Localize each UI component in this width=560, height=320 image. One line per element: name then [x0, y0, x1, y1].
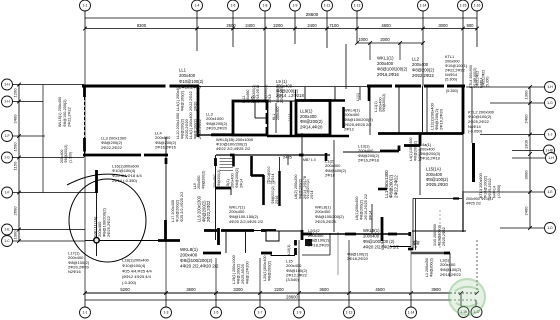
svg-text:L1(1): L1(1) [356, 93, 360, 101]
svg-text:4500: 4500 [375, 287, 385, 292]
svg-text:2Φ22,2Φ22: 2Φ22,2Φ22 [394, 175, 399, 198]
svg-text:Φ10@100(2): Φ10@100(2) [437, 225, 441, 246]
svg-text:N4Φ14: N4Φ14 [445, 73, 457, 77]
svg-text:200x400: 200x400 [420, 148, 435, 152]
svg-text:4Φ25 2/2: 4Φ25 2/2 [466, 202, 481, 206]
svg-text:Φ6@200(2): Φ6@200(2) [414, 140, 418, 161]
svg-text:2Φ18,2Φ20: 2Φ18,2Φ20 [347, 256, 369, 261]
svg-text:200x400: 200x400 [276, 107, 280, 120]
svg-text:7100: 7100 [329, 23, 339, 28]
svg-text:8300: 8300 [137, 23, 147, 28]
svg-text:L11(1): L11(1) [374, 101, 378, 112]
svg-text:1/15 200x900: 1/15 200x900 [433, 224, 437, 246]
svg-text:Φ8@100(2): Φ8@100(2) [194, 118, 198, 139]
svg-text:1-E: 1-E [547, 190, 553, 194]
svg-text:1-6: 1-6 [231, 4, 236, 8]
svg-text:Φ8@200(2): Φ8@200(2) [217, 170, 221, 188]
svg-text:200x400: 200x400 [231, 173, 235, 188]
svg-text:2Φ22,2Φ22: 2Φ22,2Φ22 [412, 73, 434, 78]
svg-text:2Φ22,2Φ22: 2Φ22,2Φ22 [206, 200, 211, 222]
svg-text:Φ8: Φ8 [417, 240, 421, 245]
svg-text:Φ25 4/4,Φ25 4/4: Φ25 4/4,Φ25 4/4 [122, 269, 153, 274]
svg-text:2400: 2400 [307, 23, 317, 28]
svg-text:(-0.300): (-0.300) [122, 280, 137, 285]
svg-text:Φ8@100(2): Φ8@100(2) [237, 263, 241, 284]
svg-text:Φ8@100-200(2): Φ8@100-200(2) [63, 99, 67, 127]
svg-text:2600: 2600 [13, 206, 18, 216]
svg-text:1-7: 1-7 [258, 311, 263, 315]
svg-text:2500: 2500 [226, 23, 236, 28]
svg-text:(5.350): (5.350) [446, 89, 459, 93]
svg-text:6Φ14: 6Φ14 [369, 211, 373, 220]
svg-text:(3.540): (3.540) [286, 277, 299, 282]
svg-text:2Φ22,2Φ22: 2Φ22,2Φ22 [189, 91, 193, 111]
svg-text:2Φ14: 2Φ14 [310, 191, 314, 199]
svg-text:1-4: 1-4 [195, 4, 200, 8]
svg-text:28600: 28600 [286, 295, 298, 300]
svg-text:1-G: 1-G [547, 101, 553, 105]
svg-text:Φ8@100/200(2): Φ8@100/200(2) [180, 258, 213, 263]
svg-text:KTL3 200x900: KTL3 200x900 [479, 173, 483, 198]
svg-text:2Φ16,2Φ16: 2Φ16,2Φ16 [377, 72, 399, 77]
svg-text:L19(1) 200x1000: L19(1) 200x1000 [232, 255, 236, 284]
svg-text:2Φ16,2Φ18: 2Φ16,2Φ18 [420, 156, 440, 160]
svg-text:2Φ25,2Φ25: 2Φ25,2Φ25 [315, 219, 337, 224]
svg-text:2Φ16,2Φ5: 2Φ16,2Φ5 [280, 87, 284, 103]
svg-text:2Φ22,2Φ22: 2Φ22,2Φ22 [198, 119, 202, 139]
svg-text:1-3: 1-3 [164, 311, 169, 315]
svg-text:1-8: 1-8 [263, 4, 268, 8]
svg-text:2Φ18,2Φ20: 2Φ18,2Φ20 [308, 243, 330, 248]
svg-text:2Φ18,2Φ18: 2Φ18,2Φ18 [256, 85, 260, 103]
svg-text:2Φ16,2Φ18: 2Φ16,2Φ18 [358, 158, 380, 163]
svg-text:(5.300): (5.300) [485, 77, 489, 87]
svg-text:L17 200x400: L17 200x400 [171, 200, 175, 222]
svg-text:2400: 2400 [524, 206, 529, 216]
svg-text:2Φ18: 2Φ18 [268, 94, 272, 103]
svg-text:2Φ20,2Φ20: 2Φ20,2Φ20 [206, 126, 228, 131]
svg-text:1-14: 1-14 [408, 311, 415, 315]
svg-text:2Φ25,2Φ20: 2Φ25,2Φ20 [426, 182, 448, 187]
svg-text:Φ8@200(2): Φ8@200(2) [360, 199, 364, 220]
svg-text:2425: 2425 [283, 155, 293, 160]
svg-text:Φ8@200(2): Φ8@200(2) [412, 67, 435, 72]
svg-text:LL4(1) 200x400: LL4(1) 200x400 [189, 112, 193, 139]
svg-text:2000: 2000 [380, 37, 390, 42]
svg-text:Φ8@100(2): Φ8@100(2) [181, 90, 185, 111]
svg-text:1-F: 1-F [4, 134, 9, 138]
svg-text:Φ8@12Φ200: Φ8@12Φ200 [245, 261, 249, 284]
svg-text:LL1: LL1 [179, 68, 187, 73]
svg-text:4Φ22 2/2,4Φ25 2/2: 4Φ22 2/2,4Φ25 2/2 [216, 146, 251, 151]
svg-text:L4a(1): L4a(1) [420, 143, 432, 147]
svg-text:1-H: 1-H [4, 100, 10, 104]
svg-text:L20(1)300x400: L20(1)300x400 [263, 255, 267, 281]
svg-text:2Φ20: 2Φ20 [194, 102, 198, 111]
svg-text:Φ10@100(2): Φ10@100(2) [179, 79, 204, 84]
svg-text:1-H: 1-H [547, 85, 553, 89]
svg-text:5200: 5200 [120, 287, 130, 292]
svg-text:N4Φ14: N4Φ14 [492, 186, 496, 198]
svg-text:2Φ16,2Φ25 2/2: 2Φ16,2Φ25 2/2 [364, 194, 368, 220]
svg-text:1-1: 1-1 [83, 311, 88, 315]
svg-text:Φ10@100(1): Φ10@100(1) [445, 64, 468, 68]
svg-text:2Φ16: 2Φ16 [275, 196, 279, 204]
svg-text:2Φ25,2Φ22: 2Φ25,2Φ22 [442, 227, 446, 246]
svg-text:1-F: 1-F [4, 191, 9, 195]
svg-text:2400: 2400 [245, 23, 255, 28]
svg-text:1-1: 1-1 [83, 4, 88, 8]
svg-text:1-16: 1-16 [474, 4, 481, 8]
svg-text:Φ10@100(4): Φ10@100(4) [122, 263, 146, 268]
svg-text:2Φ14 (-0.350): 2Φ14 (-0.350) [112, 178, 138, 183]
svg-text:200x400: 200x400 [180, 252, 198, 257]
svg-text:LL10 200x1000: LL10 200x1000 [176, 113, 180, 139]
svg-text:2Φ22,2Φ22: 2Φ22,2Φ22 [445, 69, 465, 73]
svg-text:(6Φ12 4Φ25 4/4: (6Φ12 4Φ25 4/4 [122, 274, 152, 279]
svg-text:200x900: 200x900 [445, 60, 460, 64]
svg-text:3900: 3900 [431, 287, 441, 292]
svg-text:L8(2) 200x200: L8(2) 200x200 [294, 175, 298, 200]
svg-text:3300: 3300 [233, 287, 243, 292]
svg-text:L10(1): L10(1) [287, 245, 291, 255]
svg-text:1-C: 1-C [4, 239, 10, 243]
svg-text:L4(1)100x400: L4(1)100x400 [409, 138, 413, 161]
svg-text:L5(1): L5(1) [226, 178, 230, 188]
svg-text:3600: 3600 [319, 287, 329, 292]
svg-text:(-0.500): (-0.500) [497, 184, 501, 198]
svg-text:2Φ16,2Φ20: 2Φ16,2Φ20 [439, 108, 444, 130]
svg-text:1150: 1150 [13, 161, 18, 170]
svg-text:2Φ25,2Φ22: 2Φ25,2Φ22 [488, 178, 492, 198]
svg-text:(-0.050): (-0.050) [468, 129, 483, 134]
svg-text:N2Φ10: N2Φ10 [418, 149, 422, 161]
svg-text:2Φ16,2Φ16: 2Φ16,2Φ16 [155, 145, 177, 150]
svg-text:2Φ14: 2Φ14 [271, 174, 275, 182]
svg-text:Φ6@200(2): Φ6@200(2) [235, 167, 239, 188]
svg-text:1-11: 1-11 [324, 4, 331, 8]
svg-text:1-9: 1-9 [293, 4, 298, 8]
svg-text:4800: 4800 [381, 23, 391, 28]
svg-text:1-13: 1-13 [354, 4, 361, 8]
svg-text:MB7 1.0: MB7 1.0 [303, 158, 316, 162]
svg-text:1-5: 1-5 [214, 311, 219, 315]
svg-text:2Φ22,2Φ22: 2Φ22,2Φ22 [101, 145, 123, 150]
svg-text:200x400: 200x400 [179, 73, 196, 78]
svg-text:Φ8@200(2): Φ8@200(2) [201, 171, 205, 189]
svg-text:3600: 3600 [186, 287, 196, 292]
svg-text:2Φ18: 2Φ18 [325, 173, 336, 178]
svg-text:1-J: 1-J [548, 133, 553, 137]
svg-text:KTL1: KTL1 [445, 55, 454, 59]
svg-text:Φ25 2/2,4Φ25 2/2: Φ25 2/2,4Φ25 2/2 [180, 192, 184, 222]
svg-text:200x400: 200x400 [377, 61, 394, 66]
svg-text:1-13: 1-13 [346, 311, 353, 315]
svg-text:2Φ18,2Φ22: 2Φ18,2Φ22 [440, 272, 462, 277]
svg-text:2Φ20,2Φ20: 2Φ20,2Φ20 [179, 84, 201, 89]
svg-text:Φ8@200(2): Φ8@200(2) [429, 258, 433, 277]
svg-text:L18(1)200x400: L18(1)200x400 [122, 257, 150, 262]
svg-text:2Φ14: 2Φ14 [239, 179, 243, 188]
svg-text:1-H: 1-H [4, 83, 10, 87]
svg-text:4Φ25 2/2,4Φ25 2/2: 4Φ25 2/2,4Φ25 2/2 [229, 219, 264, 224]
svg-text:Φ6@200(3): Φ6@200(3) [420, 152, 441, 156]
svg-text:LL11: LL11 [288, 113, 292, 121]
svg-text:1000: 1000 [358, 37, 368, 42]
svg-text:Φ8@100/200(2): Φ8@100/200(2) [377, 66, 408, 71]
svg-text:3000: 3000 [438, 23, 448, 28]
svg-text:1-G: 1-G [4, 156, 10, 160]
svg-text:(5.300): (5.300) [445, 78, 458, 82]
svg-text:LL2: LL2 [412, 57, 420, 62]
svg-text:1500: 1500 [13, 142, 18, 152]
svg-text:1300: 1300 [524, 139, 529, 149]
svg-text:2Φ12: 2Φ12 [344, 127, 355, 132]
svg-text:1000: 1000 [13, 230, 18, 240]
svg-text:(1.900): (1.900) [68, 152, 72, 163]
svg-text:200x400: 200x400 [363, 234, 380, 239]
svg-text:L6(1)200x400: L6(1)200x400 [355, 197, 359, 220]
svg-text:3000: 3000 [524, 170, 529, 180]
svg-text:LL4(1) 200x400: LL4(1) 200x400 [176, 84, 180, 111]
svg-text:2200: 2200 [273, 23, 283, 28]
svg-text:Φ8@200(2): Φ8@200(2) [299, 178, 303, 199]
svg-text:1200: 1200 [13, 88, 18, 98]
svg-text:1-E: 1-E [4, 228, 10, 232]
svg-text:1-15: 1-15 [460, 4, 467, 8]
svg-text:2Φ14,4Φ20: 2Φ14,4Φ20 [300, 124, 323, 129]
svg-text:WKL8(1): WKL8(1) [180, 247, 198, 252]
svg-text:Φ8@100/200 (2): Φ8@100/200 (2) [363, 239, 395, 244]
svg-text:28600: 28600 [306, 12, 319, 17]
svg-text:1-9: 1-9 [297, 311, 302, 315]
svg-text:Φ8@200(2): Φ8@200(2) [181, 118, 185, 139]
svg-text:N2Φ16: N2Φ16 [68, 269, 82, 274]
svg-text:Φ10@200(2): Φ10@200(2) [176, 199, 180, 222]
svg-text:WKL1(1): WKL1(1) [377, 56, 394, 61]
svg-text:4Φ20 2/2,4Φ20 2/2: 4Φ20 2/2,4Φ20 2/2 [180, 263, 219, 268]
svg-text:1-14: 1-14 [420, 4, 427, 8]
svg-text:Φ10@100(2): Φ10@100(2) [484, 175, 488, 198]
svg-text:Φ8@200(2): Φ8@200(2) [268, 260, 272, 281]
svg-text:Φ6@200(2): Φ6@200(2) [382, 94, 386, 112]
svg-text:2400: 2400 [524, 114, 529, 124]
svg-text:2400: 2400 [13, 114, 18, 124]
svg-text:2Φ25,2Φ22: 2Φ25,2Φ22 [106, 215, 111, 237]
svg-text:1-D: 1-D [547, 226, 553, 230]
svg-text:WKL9(1): WKL9(1) [363, 228, 380, 233]
svg-text:2200: 2200 [274, 287, 284, 292]
svg-text:4Φ20 2/2,4Φ20 2/2: 4Φ20 2/2,4Φ20 2/2 [363, 245, 399, 250]
svg-text:2Φ25,3Φ25: 2Φ25,3Φ25 [241, 264, 245, 284]
svg-text:200x400: 200x400 [412, 62, 429, 67]
svg-text:1-H: 1-H [548, 156, 554, 160]
svg-text:2Φ22,2Φ22: 2Φ22,2Φ22 [67, 107, 71, 127]
svg-text:1300: 1300 [524, 90, 529, 100]
svg-text:WL15(1) 200x400: WL15(1) 200x400 [58, 97, 62, 127]
svg-text:900: 900 [467, 23, 475, 28]
